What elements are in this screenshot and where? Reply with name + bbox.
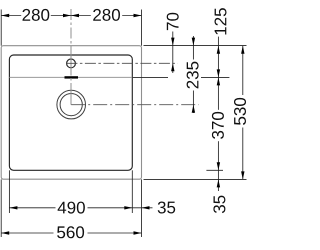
- dimension 35 bottom: [132, 202, 175, 214]
- rim bottom extension: [144, 178, 247, 180]
- dimension 280 left: [1, 9, 71, 21]
- extension line bowl-right 490: [131, 170, 133, 213]
- extension line top-left (280): [0, 10, 2, 46]
- dimension 125: [215, 8, 227, 77]
- bowl bottom extension: [206, 169, 223, 171]
- drain horizontal centerline: [71, 104, 198, 106]
- dimension 35 right: [213, 170, 225, 213]
- faucet horizontal centerline: [66, 62, 177, 64]
- sink bowl: [9, 55, 132, 170]
- extension line bottom-left 560: [0, 179, 2, 237]
- extension line top-right (280): [141, 10, 143, 46]
- dimension 490: [9, 202, 132, 214]
- bowl waterline: [9, 76, 132, 78]
- dimension 530: [234, 46, 246, 180]
- drain outer circle: [57, 90, 86, 119]
- extension line right of rim top edge: [144, 45, 247, 47]
- overflow slot: [65, 76, 79, 78]
- extension line bottom-right 560/35: [141, 179, 143, 237]
- dimension 280 right: [71, 9, 142, 21]
- vertical centerline segment through drain: [70, 93, 72, 105]
- drain inner circle: [60, 94, 82, 116]
- extension line bowl-left 490: [8, 170, 10, 213]
- dimension 370: [212, 77, 224, 170]
- dimension 235: [187, 36, 199, 113]
- faucet hole: [67, 59, 76, 68]
- vertical centerline: [70, 9, 72, 105]
- dimension 560: [1, 226, 141, 238]
- dimension 70: [167, 13, 179, 73]
- vertical centerline segment through faucet: [70, 56, 72, 71]
- sink outer rim: [1, 46, 141, 180]
- waterline extension: [132, 76, 168, 78]
